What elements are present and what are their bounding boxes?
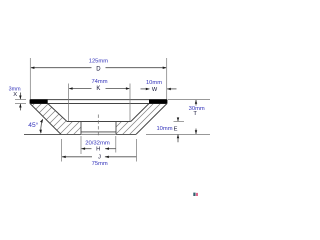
dimension J extension lines bbox=[61, 139, 63, 162]
center line (dashed) bbox=[97, 115, 99, 138]
hub bottom line / 45deg reference bbox=[24, 133, 136, 135]
svg-text:K: K bbox=[96, 86, 100, 92]
right abrasive segment (black) bbox=[149, 99, 167, 103]
left abrasive segment (black) bbox=[30, 99, 48, 103]
dimension J line bbox=[62, 156, 92, 158]
left inner slope bbox=[48, 104, 67, 122]
dimension D 125mm extension lines bbox=[29, 58, 31, 99]
svg-text:10mm: 10mm bbox=[146, 80, 162, 86]
svg-text:D: D bbox=[96, 66, 101, 72]
small logo mark bbox=[193, 193, 195, 196]
right outer slope bbox=[136, 104, 167, 135]
svg-text:E: E bbox=[174, 126, 178, 132]
dimension H line bbox=[81, 148, 91, 150]
dimension E arrows bbox=[177, 117, 179, 121]
dimension K 74mm extension lines bbox=[68, 84, 70, 122]
svg-text:W: W bbox=[152, 87, 158, 93]
hub top line bbox=[67, 121, 131, 123]
dimension X 3mm extension lines bbox=[15, 98, 26, 100]
dimension X arrows bbox=[19, 93, 21, 100]
dimension T top extension line bbox=[168, 99, 210, 101]
dimension T bottom extension line bbox=[146, 133, 210, 135]
svg-text:H: H bbox=[96, 147, 100, 153]
right inner slope bbox=[131, 104, 149, 122]
svg-text:T: T bbox=[193, 111, 197, 117]
svg-text:10mm: 10mm bbox=[156, 126, 172, 132]
dimension D line bbox=[31, 67, 92, 69]
svg-text:20/32mm: 20/32mm bbox=[85, 140, 110, 146]
wheel top band outline bbox=[30, 99, 167, 101]
svg-text:75mm: 75mm bbox=[92, 161, 108, 167]
svg-text:125mm: 125mm bbox=[89, 59, 109, 65]
dimension E top extension line bbox=[174, 120, 185, 122]
dimension T arrows bbox=[195, 100, 197, 106]
dimension K line bbox=[69, 88, 91, 90]
45 degree arc with arrows bbox=[41, 120, 43, 133]
bore hole bbox=[81, 122, 116, 134]
left outer slope bbox=[30, 104, 61, 135]
dimension W arrows bbox=[141, 88, 150, 90]
svg-text:45°: 45° bbox=[28, 121, 38, 129]
svg-text:X: X bbox=[13, 92, 17, 98]
svg-text:J: J bbox=[98, 155, 101, 161]
dimension H extension lines bbox=[80, 136, 82, 154]
svg-text:74mm: 74mm bbox=[91, 79, 107, 85]
